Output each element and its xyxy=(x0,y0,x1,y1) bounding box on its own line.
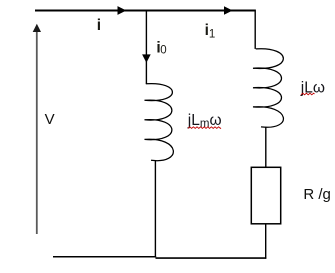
voltage arrow V xyxy=(36,31,38,234)
arrowhead current i1 xyxy=(224,6,233,15)
svg-text:V: V xyxy=(45,111,55,128)
wire L to resistor xyxy=(265,127,267,167)
inductor L (leakage) xyxy=(253,49,283,128)
wire bottom left segment xyxy=(53,256,156,258)
spellcheck squiggle under jLw xyxy=(301,93,314,95)
resistor R/g body xyxy=(251,167,280,224)
inductor Lm (magnetising branch) xyxy=(145,84,174,161)
wire top horizontal xyxy=(35,10,256,12)
arrowhead current i0 xyxy=(142,54,151,62)
svg-text:0: 0 xyxy=(160,45,166,57)
arrowhead current i xyxy=(118,6,127,15)
wire top-right corner down xyxy=(254,10,256,49)
spellcheck squiggle under jLmw xyxy=(188,127,221,129)
svg-text:i: i xyxy=(97,17,101,34)
wire middle branch vertical xyxy=(145,10,147,84)
svg-text:1: 1 xyxy=(209,29,215,41)
wire below Lm xyxy=(154,161,156,257)
svg-text:R /g: R /g xyxy=(303,186,331,203)
wire bottom right segment xyxy=(156,257,267,259)
wire resistor to bottom xyxy=(265,224,267,259)
